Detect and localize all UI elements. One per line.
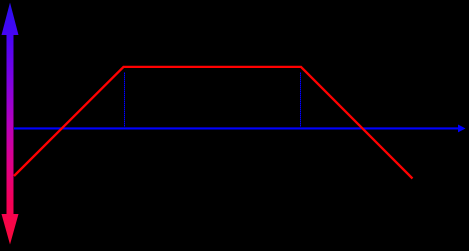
red trapezoidal profile curve — [14, 67, 413, 179]
x-axis line — [14, 127, 459, 129]
dotted guide line right — [300, 73, 302, 127]
x-axis arrowhead — [458, 125, 466, 133]
dotted guide line left — [124, 73, 126, 127]
y-axis gradient double-headed arrow — [2, 3, 19, 245]
